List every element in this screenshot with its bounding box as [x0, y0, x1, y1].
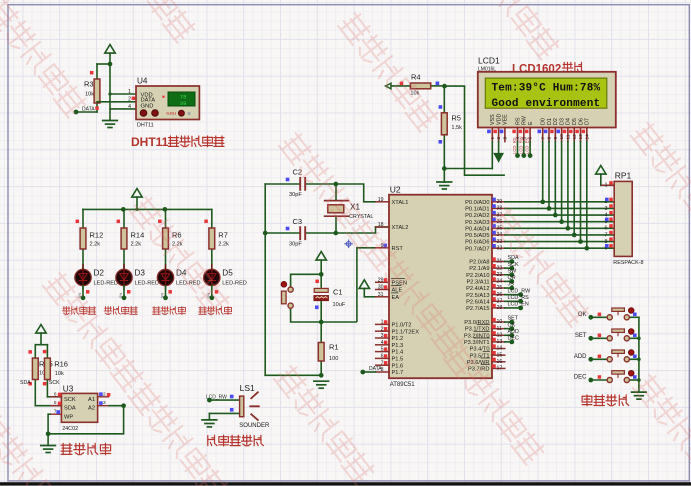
svg-text:D0: D0 [541, 118, 547, 125]
svg-text:D5: D5 [572, 118, 578, 125]
svg-text:GND: GND [141, 103, 154, 109]
svg-text:P3.0/RXD: P3.0/RXD [464, 320, 489, 326]
svg-text:RS: RS [515, 117, 521, 125]
svg-text:SOUNDER: SOUNDER [239, 423, 270, 429]
svg-text:3: 3 [503, 137, 509, 140]
svg-text:LCD_RW: LCD_RW [518, 136, 523, 154]
svg-text:D7: D7 [585, 118, 591, 125]
svg-text:10uF: 10uF [333, 302, 346, 308]
svg-text:D3: D3 [559, 118, 565, 125]
svg-text:29: 29 [378, 277, 384, 283]
svg-text:D2: D2 [553, 118, 559, 125]
svg-text:D3: D3 [135, 269, 146, 278]
svg-text:16: 16 [497, 359, 503, 365]
svg-text:10: 10 [497, 319, 503, 325]
svg-text:LCD_RS: LCD_RS [508, 295, 530, 301]
svg-text:1: 1 [381, 320, 384, 326]
svg-text:R16: R16 [54, 360, 68, 369]
svg-text:SDA: SDA [20, 380, 31, 386]
svg-text:P2.4/A12: P2.4/A12 [466, 286, 489, 292]
svg-text:6: 6 [605, 226, 608, 232]
svg-text:R12: R12 [90, 230, 104, 239]
svg-text:SCK: SCK [49, 380, 60, 386]
svg-text:LCD_RS: LCD_RS [512, 137, 517, 154]
svg-text:3: 3 [605, 206, 608, 212]
svg-text:P2.7/A15: P2.7/A15 [466, 306, 489, 312]
svg-text:C3: C3 [293, 217, 303, 226]
svg-text:P2.1/A9: P2.1/A9 [469, 266, 489, 272]
svg-text:7: 7 [54, 409, 57, 415]
svg-text:DEC: DEC [508, 336, 519, 342]
svg-text:A1: A1 [88, 397, 95, 403]
svg-text:39: 39 [180, 100, 187, 107]
svg-text:1: 1 [128, 89, 131, 95]
svg-text:D5: D5 [222, 269, 233, 278]
svg-text:P0.4/AD4: P0.4/AD4 [465, 226, 489, 232]
svg-text:2: 2 [381, 326, 384, 332]
svg-text:23: 23 [497, 272, 503, 278]
svg-text:27: 27 [497, 298, 503, 304]
svg-text:P0.7/AD7: P0.7/AD7 [465, 246, 489, 252]
svg-text:LCD1: LCD1 [478, 56, 500, 66]
svg-text:EA: EA [392, 295, 400, 301]
svg-text:22: 22 [497, 265, 503, 271]
svg-text:P1.1/T2EX: P1.1/T2EX [392, 329, 420, 335]
svg-text:SCK: SCK [64, 397, 76, 403]
svg-text:LED-RED: LED-RED [135, 280, 160, 286]
svg-text:D6: D6 [578, 118, 584, 125]
svg-text:OK: OK [508, 322, 516, 328]
svg-text:11: 11 [566, 134, 572, 139]
svg-text:10: 10 [559, 134, 565, 140]
svg-text:U4: U4 [137, 77, 148, 86]
svg-text:P3.5/T1: P3.5/T1 [470, 353, 490, 359]
svg-text:14: 14 [497, 346, 503, 352]
svg-text:Tem:39°C Hum:78%: Tem:39°C Hum:78% [492, 83, 601, 95]
svg-text:39: 39 [497, 199, 503, 205]
svg-text:1: 1 [605, 183, 608, 189]
svg-text:LCD_EN: LCD_EN [525, 137, 530, 154]
svg-text:LED-RED: LED-RED [222, 280, 247, 286]
svg-text:P1.2: P1.2 [392, 336, 404, 342]
svg-text:3: 3 [103, 400, 106, 406]
svg-text:RP1: RP1 [615, 171, 632, 181]
svg-text:12: 12 [497, 332, 503, 338]
svg-text:A2: A2 [88, 406, 95, 412]
svg-text:P1.6: P1.6 [392, 363, 404, 369]
svg-text:10k: 10k [55, 371, 64, 377]
svg-text:XTAL1: XTAL1 [392, 200, 409, 206]
svg-text:30pF: 30pF [289, 241, 302, 247]
svg-text:P2.3/A11: P2.3/A11 [467, 279, 490, 285]
svg-text:4: 4 [381, 340, 384, 346]
svg-text:SCK: SCK [508, 262, 519, 268]
svg-text:R3: R3 [84, 80, 94, 89]
svg-text:R5: R5 [451, 114, 461, 123]
svg-text:17: 17 [497, 366, 503, 372]
svg-text:24C02: 24C02 [62, 426, 78, 432]
svg-text:2.2k: 2.2k [90, 242, 101, 248]
svg-text:SDA: SDA [64, 406, 76, 412]
svg-text:15: 15 [497, 352, 503, 358]
svg-text:13: 13 [497, 339, 503, 345]
svg-text:2.2k: 2.2k [131, 242, 142, 248]
svg-text:ADD: ADD [508, 329, 519, 335]
svg-text:26: 26 [497, 292, 503, 298]
svg-text:30pF: 30pF [289, 192, 302, 198]
svg-text:VEE: VEE [503, 114, 509, 125]
svg-text:P0.5/AD5: P0.5/AD5 [465, 233, 489, 239]
svg-text:2: 2 [496, 137, 502, 140]
svg-text:SET: SET [575, 333, 587, 339]
svg-text:100: 100 [329, 356, 338, 362]
svg-text:11: 11 [497, 326, 502, 332]
svg-text:LCD_EN: LCD_EN [508, 302, 529, 308]
svg-text:P2.0/A8: P2.0/A8 [469, 260, 489, 266]
svg-text:DHT11: DHT11 [131, 135, 169, 149]
svg-text:D4: D4 [566, 118, 572, 125]
svg-text:2: 2 [128, 97, 131, 103]
svg-text:SET: SET [508, 316, 519, 322]
svg-text:10k: 10k [85, 92, 94, 98]
svg-text:AT89C51: AT89C51 [390, 382, 416, 388]
svg-text:7: 7 [540, 137, 546, 140]
svg-text:1: 1 [490, 137, 496, 140]
svg-text:32: 32 [497, 245, 503, 251]
svg-text:P2.6/A14: P2.6/A14 [466, 299, 489, 305]
svg-text:D1: D1 [547, 118, 553, 125]
svg-text:4: 4 [128, 104, 131, 110]
svg-text:P2.5/A13: P2.5/A13 [466, 293, 489, 299]
svg-text:LED-RED: LED-RED [94, 280, 119, 286]
svg-text:3: 3 [381, 333, 384, 339]
svg-text:P0.3/AD3: P0.3/AD3 [465, 220, 489, 226]
svg-text:5: 5 [54, 400, 57, 406]
svg-text:21: 21 [497, 259, 503, 265]
svg-text:RW: RW [522, 115, 528, 125]
svg-text:R4: R4 [411, 72, 421, 81]
svg-text:C1: C1 [333, 288, 343, 297]
svg-text:13: 13 [578, 134, 584, 140]
svg-text:31: 31 [378, 292, 384, 298]
svg-text:P0.2/AD2: P0.2/AD2 [465, 213, 489, 219]
svg-text:8: 8 [547, 137, 553, 140]
svg-text:19: 19 [378, 197, 384, 203]
svg-text:WP: WP [64, 415, 73, 421]
svg-text:28: 28 [497, 305, 503, 311]
svg-text:JS: JS [508, 282, 515, 288]
svg-text:5: 5 [381, 347, 384, 353]
svg-text:2: 2 [103, 391, 106, 397]
svg-text:24: 24 [497, 279, 503, 285]
svg-text:RESPACK-8: RESPACK-8 [613, 260, 643, 266]
svg-text:%RH: %RH [166, 111, 176, 116]
svg-text:D2: D2 [94, 269, 105, 278]
svg-text:18: 18 [378, 222, 384, 228]
svg-text:Good environment: Good environment [492, 98, 601, 110]
svg-text:P3.2/INT0: P3.2/INT0 [464, 333, 490, 339]
svg-text:DATA: DATA [82, 106, 95, 112]
svg-text:P0.0/AD0: P0.0/AD0 [465, 200, 489, 206]
svg-text:P0.1/AD1: P0.1/AD1 [465, 207, 489, 213]
svg-text:XTAL2: XTAL2 [392, 225, 409, 231]
svg-text:ADD: ADD [574, 354, 587, 360]
svg-text:U3: U3 [63, 384, 74, 393]
svg-text:QR: QR [508, 275, 516, 281]
svg-text:14: 14 [584, 134, 590, 140]
svg-text:S%: S% [119, 293, 123, 298]
svg-text:P1.4: P1.4 [392, 350, 404, 356]
svg-text:P3.1/TXD: P3.1/TXD [465, 327, 490, 333]
svg-text:6: 6 [381, 354, 384, 360]
svg-text:DHT11: DHT11 [137, 123, 154, 129]
svg-text:P1.0/T2: P1.0/T2 [392, 323, 412, 329]
svg-text:R14: R14 [131, 230, 145, 239]
svg-text:30: 30 [378, 285, 384, 291]
svg-text:R7: R7 [218, 230, 228, 239]
svg-text:VSS: VSS [490, 114, 496, 125]
svg-text:LS1: LS1 [240, 383, 255, 393]
svg-text:25: 25 [497, 285, 503, 291]
svg-text:1.5k: 1.5k [451, 125, 462, 131]
svg-text:12: 12 [572, 134, 578, 140]
svg-text:R1: R1 [329, 343, 339, 352]
svg-text:33: 33 [497, 239, 503, 245]
svg-text:VDD: VDD [496, 114, 502, 125]
svg-text:P0.6/AD6: P0.6/AD6 [465, 240, 489, 246]
svg-text:U2: U2 [390, 184, 401, 194]
svg-text:LCD_RW: LCD_RW [508, 288, 532, 294]
svg-text:P1.7: P1.7 [392, 370, 404, 376]
svg-text:7: 7 [605, 232, 608, 238]
svg-text:E: E [528, 121, 534, 125]
svg-text:DATA: DATA [369, 366, 382, 372]
svg-text:RST: RST [392, 246, 404, 252]
svg-text:P1.3: P1.3 [392, 343, 404, 349]
svg-text:DEC: DEC [574, 375, 587, 381]
svg-text:P1.5: P1.5 [392, 357, 404, 363]
svg-text:P2.2/A10: P2.2/A10 [466, 273, 489, 279]
svg-text:38: 38 [497, 206, 503, 212]
svg-text:S%: S% [161, 293, 165, 298]
svg-text:SW: SW [508, 268, 518, 274]
svg-text:9: 9 [553, 137, 559, 140]
svg-text:P3.4/T0: P3.4/T0 [470, 347, 490, 353]
svg-text:6: 6 [54, 391, 57, 397]
svg-text:2.2k: 2.2k [218, 242, 229, 248]
svg-text:P3.3/INT1: P3.3/INT1 [464, 340, 490, 346]
